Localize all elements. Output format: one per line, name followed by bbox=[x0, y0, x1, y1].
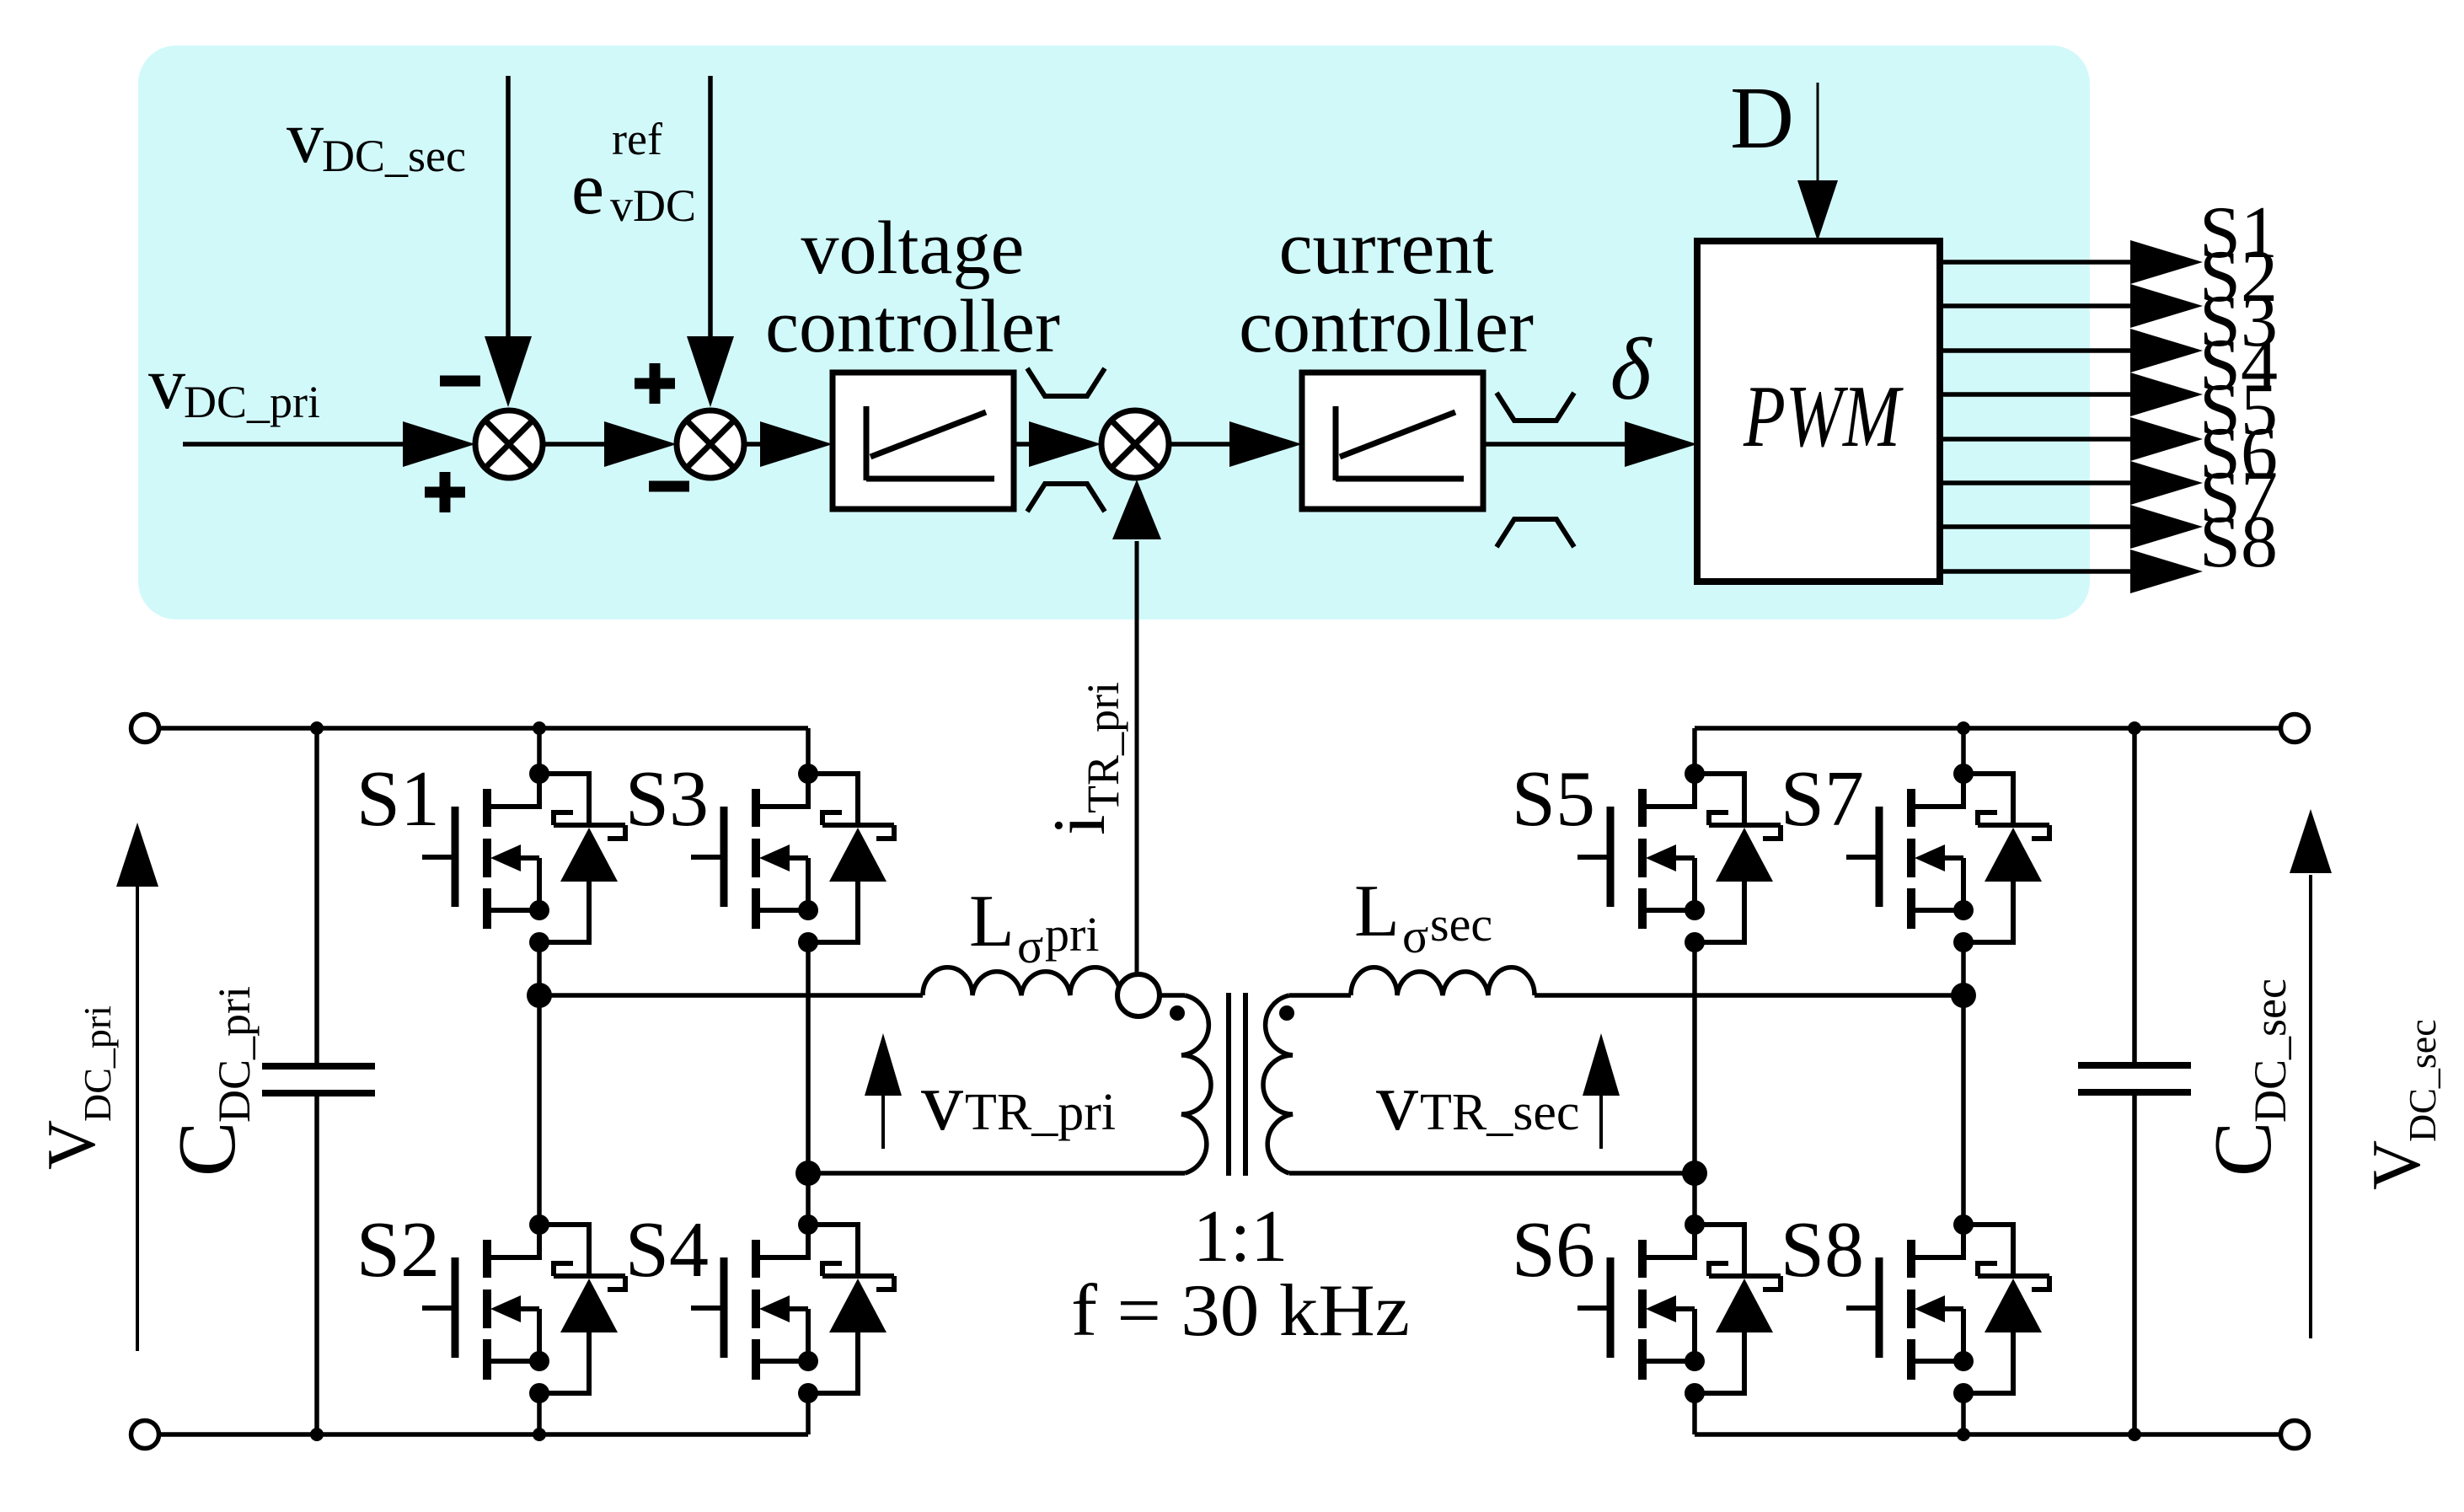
svg-text:f = 30 kHz: f = 30 kHz bbox=[1071, 1270, 1410, 1352]
label v_DC_pri bbox=[148, 343, 320, 427]
transistor S1 (MOSFET with Schottky body diode) bbox=[356, 755, 625, 952]
arrow v_TR_pri bbox=[865, 1033, 902, 1149]
wire PWM output S2 bbox=[1940, 236, 2278, 328]
svg-text:DC_pri: DC_pri bbox=[184, 377, 320, 427]
svg-text:δ: δ bbox=[1610, 319, 1653, 418]
svg-text:controller: controller bbox=[765, 285, 1060, 368]
wire v_DC_sec input bbox=[485, 76, 532, 407]
svg-text:pri: pri bbox=[1045, 907, 1099, 962]
svg-text:voltage: voltage bbox=[801, 206, 1025, 290]
inductor L_sigma_pri bbox=[923, 968, 1120, 995]
label L_sigma_pri bbox=[969, 881, 1099, 973]
svg-text:e: e bbox=[571, 148, 604, 230]
current controller block U2 bbox=[1302, 373, 1483, 509]
svg-text:i: i bbox=[1039, 815, 1121, 835]
junction C_DC_pri bottom bbox=[310, 1428, 324, 1441]
svg-text:vDC: vDC bbox=[610, 180, 696, 231]
wire transformer secondary top to L_sigma_sec bbox=[1289, 993, 1351, 998]
junction S7 drain rail bbox=[1957, 721, 1970, 735]
capacitor C_DC_sec bbox=[2078, 728, 2191, 1434]
wire bridge leg S5/S6 bbox=[1692, 728, 1697, 1434]
terminal primary positive bbox=[131, 715, 159, 743]
wire PWM output S4 bbox=[1940, 324, 2278, 416]
svg-text:DC_pri: DC_pri bbox=[209, 986, 260, 1123]
current sensor on i_TR_pri bbox=[1117, 974, 1185, 1016]
arrow V_DC_pri bbox=[116, 823, 158, 1351]
label V_DC_sec bbox=[2358, 1019, 2444, 1190]
transformer TR polarity dot primary bbox=[1170, 1005, 1185, 1021]
svg-text:ref: ref bbox=[612, 114, 662, 164]
transistor S2 (MOSFET with Schottky body diode) bbox=[356, 1206, 625, 1403]
wire multiplier to current controller bbox=[1169, 421, 1302, 467]
wire current controller to PWM bbox=[1483, 421, 1697, 467]
transformer TR polarity dot secondary bbox=[1279, 1005, 1294, 1021]
label D bbox=[1730, 68, 1794, 167]
wire secondary top rail bbox=[1695, 726, 2279, 731]
terminal secondary negative bbox=[2281, 1421, 2309, 1449]
svg-text:PWM: PWM bbox=[1743, 367, 1904, 465]
svg-text:C: C bbox=[2198, 1122, 2289, 1177]
transistor S6 (MOSFET with Schottky body diode) bbox=[1512, 1206, 1781, 1403]
label v_TR_sec bbox=[1376, 1054, 1579, 1148]
wire secondary bottom rail bbox=[1695, 1432, 2279, 1437]
svg-text:TR_sec: TR_sec bbox=[1420, 1084, 1579, 1141]
svg-text:S4: S4 bbox=[625, 1206, 709, 1294]
label v_TR_pri bbox=[921, 1054, 1116, 1148]
svg-text:current: current bbox=[1279, 206, 1494, 290]
svg-text:1:1: 1:1 bbox=[1193, 1196, 1288, 1278]
transistor S3 (MOSFET with Schottky body diode) bbox=[625, 755, 894, 952]
terminal primary negative bbox=[131, 1421, 159, 1449]
svg-text:L: L bbox=[1354, 871, 1400, 952]
label V_DC_pri bbox=[33, 1005, 119, 1170]
svg-text:DC_sec: DC_sec bbox=[322, 131, 466, 181]
wire primary top rail bbox=[161, 726, 808, 731]
transformer TR core bbox=[1229, 993, 1245, 1176]
wire D input into PWM bbox=[1797, 83, 1838, 241]
svg-text:S5: S5 bbox=[1512, 755, 1595, 843]
sign minus at SJ2 lower input bbox=[649, 481, 689, 492]
label v_DC_sec bbox=[287, 97, 466, 181]
transistor S4 (MOSFET with Schottky body diode) bbox=[625, 1206, 894, 1403]
arrow V_DC_sec bbox=[2290, 809, 2332, 1338]
wire PWM output S1 bbox=[1940, 192, 2278, 284]
transistor S5 (MOSFET with Schottky body diode) bbox=[1512, 755, 1781, 952]
voltage controller block U1 bbox=[833, 373, 1014, 509]
control section background panel bbox=[138, 46, 2090, 619]
wire primary bottom (S3/S4 midpoint to transformer) bbox=[808, 1171, 1185, 1176]
label C_DC_pri bbox=[162, 986, 260, 1177]
summing junction SJ2 bbox=[677, 410, 744, 478]
node secondary leg A midpoint (S5/S6) bbox=[1682, 1161, 1707, 1186]
arrow v_TR_sec bbox=[1583, 1033, 1620, 1149]
svg-text:L: L bbox=[969, 881, 1015, 962]
sign plus at SJ2 upper input bbox=[635, 363, 675, 404]
svg-text:v: v bbox=[148, 343, 185, 425]
wire secondary bottom (transformer to S5/S6 midpoint) bbox=[1289, 1171, 1695, 1176]
transistor S8 (MOSFET with Schottky body diode) bbox=[1781, 1206, 2049, 1403]
node primary leg A midpoint (S1/S2) bbox=[527, 983, 552, 1008]
saturation limits at current controller output bbox=[1497, 393, 1574, 547]
terminal secondary positive bbox=[2281, 715, 2309, 743]
svg-text:S3: S3 bbox=[625, 755, 709, 843]
label i_TR_pri bbox=[1039, 682, 1128, 835]
svg-text:v: v bbox=[287, 97, 324, 179]
wire PWM output S5 bbox=[1940, 369, 2278, 461]
svg-text:S6: S6 bbox=[1512, 1206, 1595, 1294]
svg-text:v: v bbox=[1376, 1054, 1418, 1148]
junction S2 source rail bbox=[533, 1428, 546, 1441]
svg-text:C: C bbox=[162, 1122, 253, 1177]
capacitor C_DC_pri bbox=[262, 728, 375, 1434]
wire v_DC_pri input bbox=[183, 421, 475, 467]
svg-text:S8: S8 bbox=[1781, 1206, 1864, 1294]
wire e_vDC^ref input bbox=[687, 76, 734, 407]
multiplier M1 bbox=[1101, 410, 1169, 478]
svg-text:S7: S7 bbox=[1781, 755, 1864, 843]
wire bridge leg S3/S4 bbox=[806, 728, 811, 1434]
sign minus at SJ1 upper input bbox=[440, 376, 480, 387]
svg-text:DC_pri: DC_pri bbox=[76, 1005, 119, 1122]
wire SJ2 to voltage controller bbox=[744, 421, 833, 467]
label current controller bbox=[1239, 206, 1534, 368]
transformer TR primary winding bbox=[1181, 995, 1211, 1173]
node secondary leg B midpoint (S7/S8) bbox=[1951, 983, 1976, 1008]
PWM block U3 bbox=[1697, 241, 1940, 582]
wire SJ1 to SJ2 bbox=[543, 421, 677, 467]
wire bridge leg S7/S8 bbox=[1961, 728, 1966, 1434]
inductor L_sigma_sec bbox=[1351, 968, 1535, 995]
wire voltage controller to multiplier bbox=[1014, 421, 1101, 467]
transformer TR secondary winding bbox=[1263, 995, 1293, 1173]
summing junction SJ1 bbox=[475, 410, 543, 478]
wire PWM output S3 bbox=[1940, 281, 2278, 373]
junction C_DC_pri top bbox=[310, 721, 324, 735]
svg-text:DC_sec: DC_sec bbox=[2401, 1019, 2444, 1142]
junction S1 drain rail bbox=[533, 721, 546, 735]
svg-text:controller: controller bbox=[1239, 285, 1534, 368]
wire PWM output S8 bbox=[1940, 501, 2278, 593]
svg-text:V: V bbox=[2358, 1140, 2435, 1190]
label delta (phase shift) bbox=[1610, 319, 1653, 418]
svg-text:σ: σ bbox=[1017, 919, 1043, 973]
wire L_sigma_sec to secondary midpoint (S7/S8) bbox=[1535, 993, 1963, 998]
svg-text:S8: S8 bbox=[2199, 501, 2278, 583]
wire primary bottom rail bbox=[161, 1432, 808, 1437]
svg-text:TR_pri: TR_pri bbox=[1078, 682, 1128, 813]
label switching frequency f = 30 kHz bbox=[1071, 1270, 1410, 1352]
label turns ratio 1:1 bbox=[1193, 1196, 1288, 1278]
junction C_DC_sec top bbox=[2128, 721, 2141, 735]
sign plus at SJ1 lower input bbox=[425, 472, 465, 512]
saturation limits at voltage controller output bbox=[1027, 368, 1105, 512]
svg-text:TR_pri: TR_pri bbox=[965, 1084, 1116, 1141]
wire bridge leg S1/S2 bbox=[537, 728, 542, 1434]
wire primary midpoint to L_sigma_pri bbox=[539, 993, 923, 998]
svg-text:S1: S1 bbox=[356, 755, 440, 843]
label L_sigma_sec bbox=[1354, 871, 1492, 963]
svg-text:DC_sec: DC_sec bbox=[2245, 979, 2295, 1123]
wire PWM output S6 bbox=[1940, 413, 2278, 505]
junction C_DC_sec bottom bbox=[2128, 1428, 2141, 1441]
node primary leg B midpoint (S3/S4) bbox=[795, 1161, 821, 1186]
svg-text:S2: S2 bbox=[356, 1206, 440, 1294]
label e_vDC^ref bbox=[571, 114, 696, 231]
svg-text:v: v bbox=[921, 1054, 963, 1148]
svg-text:V: V bbox=[33, 1120, 110, 1170]
svg-text:sec: sec bbox=[1430, 897, 1492, 952]
label voltage controller bbox=[765, 206, 1060, 368]
junction S8 source rail bbox=[1957, 1428, 1970, 1441]
svg-text:D: D bbox=[1730, 68, 1794, 167]
svg-text:σ: σ bbox=[1402, 909, 1428, 963]
transistor S7 (MOSFET with Schottky body diode) bbox=[1781, 755, 2049, 952]
wire i_TR_pri feedback into multiplier bbox=[1112, 480, 1161, 974]
wire PWM output S7 bbox=[1940, 457, 2278, 549]
label C_DC_sec bbox=[2198, 979, 2295, 1177]
